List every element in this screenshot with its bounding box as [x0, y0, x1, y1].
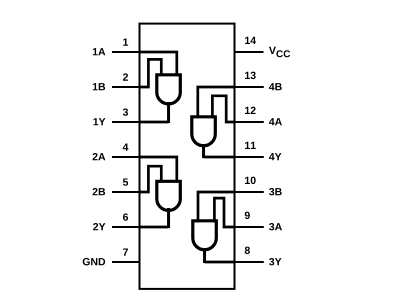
node label 1A: [93, 48, 105, 55]
wire gate U1C output stub: [203, 248, 206, 263]
power VCC label: [269, 47, 290, 58]
wire pin 9 hook to gate U1C input A: [214, 198, 235, 227]
pin number 6: [123, 213, 128, 220]
wire gate U1D output stub: [202, 144, 205, 158]
wire pin 3 to gate U1A output: [140, 121, 169, 124]
node label 2Y: [93, 223, 105, 230]
wire pin 6 stub: [112, 226, 141, 228]
pin number 2: [123, 73, 128, 80]
wire pin 12 stub: [234, 121, 264, 123]
node label 1Y: [93, 118, 105, 125]
node label 2A: [93, 153, 106, 160]
wire pin 9 stub: [234, 226, 264, 228]
node label 4Y: [269, 153, 282, 160]
wire pin 12 hook to gate U1D input A: [212, 96, 235, 122]
pin number 12: [245, 107, 256, 114]
wire pin 8 stub: [234, 261, 264, 263]
AND gate U1D: [192, 117, 216, 146]
wire pin 4 to gate U1B input B: [140, 157, 177, 183]
wire pin 3 stub: [112, 121, 141, 123]
wire pin 11 to gate U1D output: [204, 156, 235, 159]
ground GND label: [83, 258, 105, 265]
wire pin 2 stub: [112, 86, 141, 88]
AND gate U1B: [157, 181, 181, 210]
pin number 9: [245, 212, 250, 219]
wire pin 13 stub: [234, 86, 264, 88]
pin number 14: [245, 37, 256, 44]
node label 3A: [269, 223, 282, 230]
node label 1B: [93, 83, 105, 90]
pin number 11: [245, 142, 256, 149]
pin number 5: [123, 178, 128, 185]
pin number 13: [245, 72, 256, 79]
pin number 3: [123, 108, 128, 115]
node label 3B: [269, 188, 282, 195]
wire pin 4 stub: [112, 156, 141, 158]
wire pin 5 stub: [112, 191, 141, 193]
wire pin 2 hook to gate U1A input A: [140, 59, 162, 87]
pin number 7: [123, 248, 128, 255]
node label 4B: [269, 83, 282, 90]
node label 3Y: [269, 258, 281, 265]
AND gate U1A: [157, 75, 181, 104]
wire pin 7 stub (GND): [112, 261, 140, 263]
wire pin 5 hook to gate U1B input A: [140, 166, 162, 192]
wire gate U1B output stub: [167, 208, 170, 228]
AND gate U1C: [193, 221, 217, 250]
wire pin 14 stub (VCC): [235, 51, 264, 53]
wire gate U1A output stub: [167, 102, 170, 123]
pin number 8: [245, 247, 250, 254]
wire pin 8 to gate U1C output: [205, 261, 235, 264]
wire pin 10 stub: [234, 191, 264, 193]
node label 2B: [93, 188, 106, 195]
pin number 10: [245, 177, 256, 184]
wire pin 1 to gate U1A input B: [140, 52, 177, 76]
pin number 4: [123, 143, 129, 150]
node label 4A: [269, 118, 282, 125]
wire pin 1 stub: [112, 51, 141, 53]
IC body U1 (14-pin DIP outline): [140, 24, 235, 289]
wire pin 6 to gate U1B output: [140, 226, 169, 229]
wire pin 11 stub: [234, 156, 264, 158]
wire pin 10 to gate U1C input B: [198, 192, 235, 222]
pin number 1: [123, 38, 128, 45]
wire pin 13 to gate U1D input B: [198, 87, 235, 118]
